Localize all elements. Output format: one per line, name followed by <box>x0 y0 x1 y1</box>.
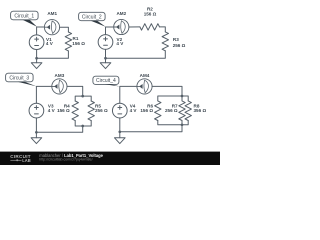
wire V2 bottom <box>105 49 107 58</box>
return wire circuit4 <box>120 125 182 132</box>
svg-text:http://circuitlab.com/c/7pq4wm: http://circuitlab.com/c/7pq4wm8e/ <box>39 158 92 162</box>
ammeter AM2 <box>114 11 129 35</box>
resistor R3 <box>162 32 186 51</box>
wire top-left circuit4 <box>120 86 137 103</box>
svg-text:AM3: AM3 <box>55 73 65 78</box>
footer bar <box>0 152 220 165</box>
ground circuit2 <box>100 58 111 68</box>
wire top-left circuit1 <box>37 27 45 35</box>
svg-text:4 V: 4 V <box>130 108 138 113</box>
wire AM4 to parallel network circuit4 <box>152 86 182 96</box>
svg-text:AM1: AM1 <box>47 11 57 16</box>
wire R2 to R3 <box>160 27 166 32</box>
resistor R1 <box>65 32 85 51</box>
svg-text:156 Ω: 156 Ω <box>72 41 85 46</box>
svg-text:LAB: LAB <box>22 158 30 163</box>
junction node top rail circuit4 <box>181 95 184 98</box>
svg-text:4 V: 4 V <box>48 108 56 113</box>
wire R3 bottom to ground rail circuit2 <box>106 51 166 58</box>
resistor R8 <box>185 101 206 121</box>
junction node circuit2 <box>104 57 107 60</box>
voltage source V4 <box>112 103 137 118</box>
wire V1 bottom <box>36 50 38 59</box>
junction node circuit4 <box>118 130 121 133</box>
ground circuit1 <box>31 58 42 68</box>
bottom rail circuit3 <box>75 121 91 126</box>
ammeter AM3 <box>52 73 67 94</box>
wire AM3 to parallel network circuit3 <box>67 86 83 96</box>
svg-text:156 Ω: 156 Ω <box>57 108 70 113</box>
svg-text:356 Ω: 356 Ω <box>194 108 207 113</box>
svg-text:4 V: 4 V <box>46 41 54 46</box>
svg-text:Circuit_2: Circuit_2 <box>82 14 102 20</box>
node label Circuit_3 <box>6 73 37 86</box>
svg-text:Circuit_4: Circuit_4 <box>96 78 116 84</box>
voltage source V2 <box>98 35 124 50</box>
top rail circuit4 <box>158 96 188 101</box>
svg-text:256 Ω: 256 Ω <box>95 108 108 113</box>
voltage source V1 <box>29 35 53 50</box>
junction node circuit3 <box>35 131 38 134</box>
wire AM2 to R2 <box>129 26 140 28</box>
node label Circuit_4 <box>93 76 120 86</box>
svg-text:156 Ω: 156 Ω <box>140 108 153 113</box>
svg-text:4 V: 4 V <box>116 41 124 46</box>
svg-text:Circuit_3: Circuit_3 <box>9 75 29 81</box>
svg-text:Circuit_1: Circuit_1 <box>14 13 34 19</box>
resistor R5 <box>88 101 108 121</box>
wire top-left circuit2 <box>106 27 114 35</box>
bottom rail circuit4 <box>158 121 188 125</box>
svg-text:R3: R3 <box>173 37 179 42</box>
resistor R7 <box>165 96 185 120</box>
ground circuit4 <box>115 132 126 144</box>
node label Circuit_1 <box>11 11 38 27</box>
resistor R4 <box>57 101 78 121</box>
wire V3 bottom <box>35 118 37 132</box>
ammeter AM1 <box>44 11 59 35</box>
wire top-left circuit3 <box>36 86 51 103</box>
svg-text:AM2: AM2 <box>116 11 126 16</box>
wire V4 bottom <box>119 118 121 132</box>
junction node bottom rail circuit4 <box>181 123 184 126</box>
wire AM1 to R1 <box>60 27 69 32</box>
top rail circuit3 <box>75 96 91 101</box>
voltage source V3 <box>29 103 56 118</box>
svg-text:256 Ω: 256 Ω <box>173 43 186 48</box>
svg-text:256 Ω: 256 Ω <box>165 108 178 113</box>
ground circuit3 <box>31 132 42 143</box>
svg-text:156 Ω: 156 Ω <box>144 11 157 16</box>
resistor R6 <box>140 101 161 121</box>
junction node bottom rail circuit3 <box>81 125 84 128</box>
wire R1 bottom to ground rail circuit1 <box>37 51 69 58</box>
junction node circuit1 <box>35 57 38 60</box>
node label Circuit_2 <box>79 12 106 26</box>
ammeter AM4 <box>137 73 152 94</box>
return wire circuit3 <box>36 126 82 132</box>
junction node top rail circuit3 <box>81 95 84 98</box>
resistor R2 <box>140 7 160 31</box>
svg-text:AM4: AM4 <box>140 73 150 78</box>
